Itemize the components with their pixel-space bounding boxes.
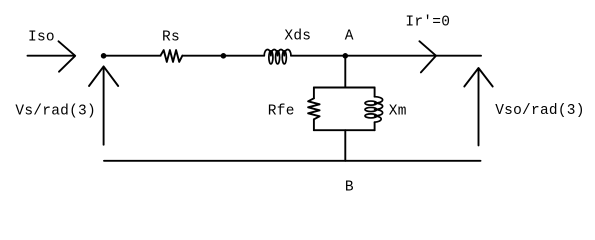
junction dot input node <box>101 53 107 59</box>
svg-text:A: A <box>345 29 354 45</box>
wire from top bar to inductor Xm <box>374 88 376 97</box>
wire bottom rail <box>104 160 481 162</box>
resistor Rs <box>161 50 183 62</box>
svg-text:Xds: Xds <box>284 29 311 45</box>
inductor Xds <box>264 49 291 63</box>
wire top bar of shunt branch <box>314 87 375 89</box>
wire from resistor Rs to middle junction <box>182 55 223 57</box>
wire from shunt branch down to node B <box>344 130 346 161</box>
svg-text:B: B <box>345 179 354 195</box>
voltage arrow Vs <box>89 66 118 144</box>
wire from input node to resistor Rs <box>104 55 161 57</box>
resistor Rfe <box>308 98 320 119</box>
svg-text:Vso/rad(3): Vso/rad(3) <box>495 103 585 119</box>
svg-text:Rs: Rs <box>162 30 180 46</box>
current arrow Iso <box>28 41 76 71</box>
svg-text:Vs/rad(3): Vs/rad(3) <box>15 103 96 119</box>
wire from top bar to resistor Rfe <box>313 88 315 99</box>
wire bottom bar of shunt branch <box>314 129 375 131</box>
svg-text:Ir'=0: Ir'=0 <box>405 15 450 31</box>
wire from inductor Xds to node A <box>291 55 345 57</box>
junction dot node A <box>343 53 349 59</box>
wire from node A to output with arrow <box>345 41 481 72</box>
svg-text:Rfe: Rfe <box>268 104 295 120</box>
svg-text:Xm: Xm <box>389 104 407 120</box>
svg-text:Iso: Iso <box>28 30 55 46</box>
inductor Xm <box>365 97 383 123</box>
junction dot between Rs and Xds <box>221 53 227 59</box>
wire from inductor Xm to bottom bar <box>374 122 376 130</box>
wire from resistor Rfe to bottom bar <box>313 119 315 130</box>
wire from node A down to shunt branch <box>344 56 346 88</box>
wire from middle junction to inductor Xds <box>223 55 264 57</box>
voltage arrow Vso <box>464 68 492 145</box>
